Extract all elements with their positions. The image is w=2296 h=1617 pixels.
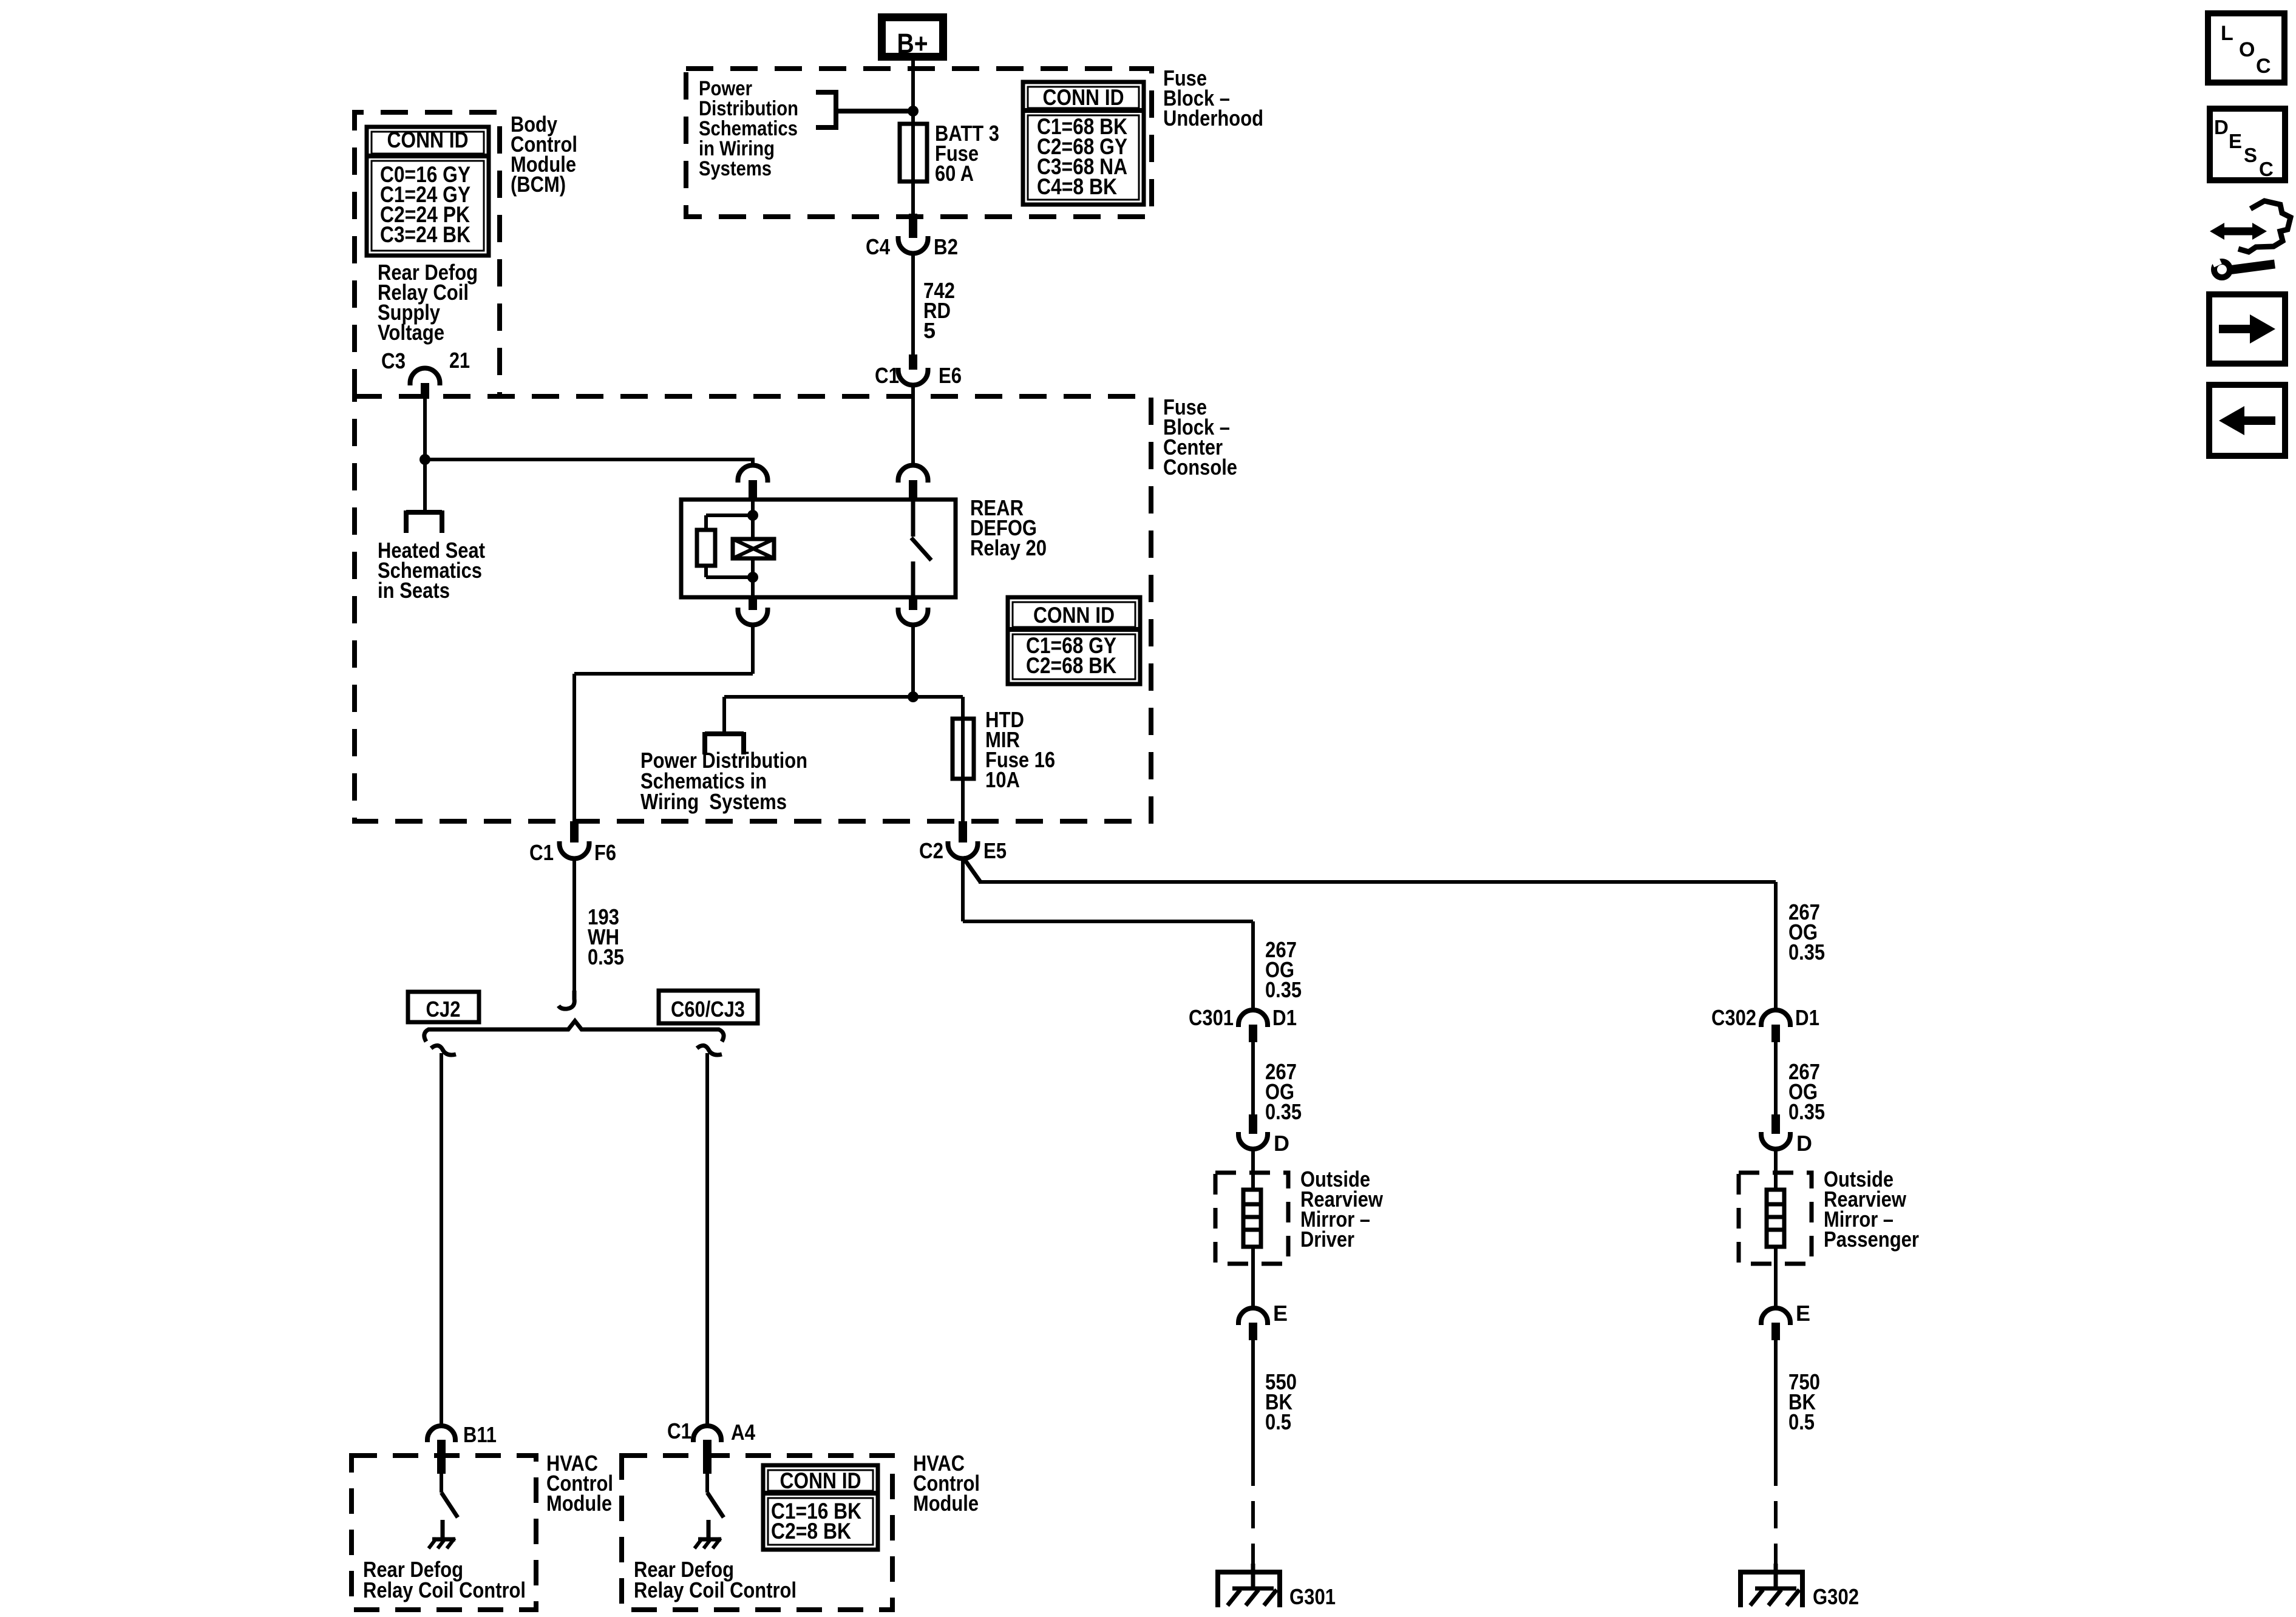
wire relay coil return to F6	[574, 625, 753, 821]
svg-text:C1: C1	[529, 840, 554, 865]
label wire 750 BK 0.5	[1788, 1369, 1820, 1434]
svg-text:CONN ID: CONN ID	[1033, 603, 1115, 628]
svg-text:C3: C3	[381, 348, 406, 373]
wire 742 RD 5	[911, 253, 915, 354]
icon back arrow	[2209, 385, 2285, 456]
connector D (passenger mirror)	[1761, 1114, 1812, 1156]
relay REAR DEFOG Relay 20 box	[681, 500, 956, 597]
label Body Control Module (BCM)	[511, 112, 577, 197]
svg-text:L: L	[2221, 22, 2233, 45]
Outside Rearview Mirror - Driver dashed box	[1215, 1173, 1288, 1264]
label wire 267 OG 0.35 (driver upper)	[1265, 937, 1302, 1002]
svg-text:C2=8 BK: C2=8 BK	[771, 1519, 851, 1544]
svg-text:E5: E5	[983, 838, 1007, 863]
svg-text:CONN ID: CONN ID	[387, 127, 469, 152]
label wire 267 OG 0.35 (passenger upper)	[1788, 900, 1825, 964]
label Rear Defog Relay Coil Supply Voltage	[378, 260, 478, 345]
icon forward arrow	[2209, 294, 2285, 364]
svg-text:Module: Module	[913, 1491, 979, 1516]
off-page pointer bracket: Heated Seat Schematics	[406, 510, 442, 533]
svg-text:D: D	[2214, 116, 2229, 138]
connector C2 / E5	[919, 821, 1007, 863]
relay coil pin bottom connector (85)	[738, 597, 768, 625]
svg-text:C2: C2	[919, 838, 943, 863]
label Power Distribution Schematics in Wiring Systems (top)	[699, 77, 798, 180]
svg-text:E: E	[2229, 130, 2242, 152]
svg-text:0.35: 0.35	[1788, 940, 1825, 964]
svg-text:Relay Coil Control: Relay Coil Control	[634, 1578, 796, 1602]
connector B11 (HVAC left)	[427, 1422, 497, 1474]
label HTD MIR Fuse 16 10A	[985, 707, 1055, 792]
switch Rear Defog Relay Coil Control (right)	[707, 1474, 724, 1538]
svg-text:E: E	[1273, 1301, 1288, 1326]
node junction BCM coil supply	[419, 454, 430, 465]
label Outside Rearview Mirror - Passenger	[1824, 1167, 1919, 1252]
wire C302 to D (passenger)	[1774, 1042, 1778, 1114]
label wire 193 WH 0.35	[588, 904, 624, 969]
CONN ID table (Fuse Block Center Console)	[1008, 597, 1140, 684]
svg-text:C301: C301	[1189, 1005, 1234, 1030]
wire E5 to driver mirror (267 OG)	[963, 857, 1253, 1010]
svg-text:G302: G302	[1813, 1584, 1859, 1609]
svg-text:CJ2: CJ2	[426, 997, 461, 1022]
svg-text:10A: 10A	[985, 767, 1020, 792]
wire junction to relay coil (horizontal)	[425, 458, 753, 466]
label wire 550 BK 0.5	[1265, 1369, 1297, 1434]
label Rear Defog Relay Coil Control (left)	[363, 1557, 526, 1602]
CONN ID table (BCM)	[367, 127, 489, 256]
svg-text:G301: G301	[1289, 1584, 1336, 1609]
wire BCM pin 21 down to junction	[423, 399, 427, 459]
connector C1 / F6	[529, 821, 616, 865]
label Fuse Block - Underhood	[1163, 66, 1263, 131]
label Fuse Block - Center Console	[1163, 395, 1237, 480]
CONN ID table (HVAC right)	[763, 1465, 878, 1550]
wire break hook below bus (C60/CJ3 leg)	[697, 1045, 722, 1424]
connector C302 / D1	[1711, 1005, 1819, 1042]
svg-text:A4: A4	[731, 1420, 755, 1445]
HVAC Control Module dashed box (left)	[352, 1456, 536, 1610]
connector E (passenger)	[1761, 1301, 1810, 1340]
connector C1 / E6	[875, 354, 962, 388]
relay switch pin bottom connector (87)	[898, 597, 928, 625]
switch Rear Defog Relay Coil Control (left)	[441, 1474, 458, 1538]
svg-text:C1: C1	[875, 363, 899, 388]
wire C301 to D (driver)	[1251, 1042, 1255, 1114]
heater element (passenger mirror)	[1767, 1149, 1784, 1308]
svg-text:C1: C1	[667, 1419, 691, 1443]
label wire 267 OG 0.35 (passenger lower)	[1788, 1059, 1825, 1124]
relay coil symbol (box with X)	[733, 539, 774, 558]
label Power Distribution Schematics in Wiring Systems (console)	[640, 748, 807, 814]
Fuse Block - Center Console dashed box	[355, 396, 1151, 821]
svg-text:Voltage: Voltage	[378, 320, 444, 345]
svg-text:E: E	[1796, 1301, 1810, 1326]
relay switch (open)	[911, 500, 931, 597]
label REAR DEFOG Relay 20	[970, 495, 1047, 560]
fuse BATT 3 Fuse 60 A	[900, 124, 927, 181]
wire B+ down to junction	[911, 61, 915, 112]
node junction at B+ feed	[908, 106, 919, 117]
label box C60/CJ3	[659, 991, 758, 1023]
off-page pointer bracket: Power Distribution Schematics in Wiring Systems	[816, 90, 913, 130]
relay coil circuit	[706, 500, 758, 597]
connector C301 / D1	[1189, 1005, 1297, 1042]
wire junction bus to HTD MIR fuse	[724, 697, 963, 734]
svg-text:0.35: 0.35	[588, 944, 624, 969]
Body Control Module dashed box	[355, 112, 500, 396]
label HVAC Control Module (left)	[546, 1451, 613, 1516]
fuse HTD MIR Fuse 16 10A	[953, 697, 974, 821]
power feed B+ terminal	[882, 18, 943, 59]
wire 750 BK 0.5 (passenger ground wire)	[1774, 1340, 1778, 1571]
wire 193 WH 0.35 to splice	[572, 858, 576, 1003]
svg-text:C4: C4	[866, 234, 890, 259]
connector C1 / A4 (HVAC right)	[667, 1419, 755, 1474]
svg-text:Console: Console	[1163, 455, 1237, 480]
Outside Rearview Mirror - Passenger dashed box	[1739, 1173, 1812, 1264]
svg-text:0.5: 0.5	[1788, 1409, 1815, 1434]
label Heated Seat Schematics in Seats	[378, 538, 485, 603]
svg-text:Passenger: Passenger	[1824, 1227, 1919, 1252]
wire break hook below bus (CJ2 leg)	[431, 1045, 456, 1424]
svg-text:B+: B+	[897, 28, 928, 59]
svg-text:Systems: Systems	[699, 157, 772, 180]
HVAC Control Module dashed box (right)	[622, 1456, 892, 1610]
connector E (driver)	[1238, 1301, 1288, 1340]
svg-text:CONN ID: CONN ID	[780, 1468, 861, 1493]
svg-text:in Seats: in Seats	[378, 578, 450, 603]
ground G301	[1215, 1564, 1336, 1609]
label Outside Rearview Mirror - Driver	[1300, 1167, 1384, 1252]
relay coil pin top connector (86)	[738, 466, 768, 500]
svg-text:Wiring Systems: Wiring Systems	[640, 789, 787, 814]
relay switch pin top connector (30)	[898, 466, 928, 500]
off-page pointer bracket: Power Distribution (console)	[705, 732, 744, 754]
wire E5 to passenger mirror (267 OG)	[963, 857, 1776, 1010]
connector C4 / B2	[866, 214, 958, 259]
svg-text:Driver: Driver	[1300, 1227, 1354, 1252]
svg-text:Module: Module	[546, 1491, 612, 1516]
svg-text:(BCM): (BCM)	[511, 172, 566, 197]
icon LOC	[2208, 13, 2284, 83]
splice bus CJ2 / C60-CJ3	[424, 1021, 724, 1042]
wire E6 into center console fuse block	[911, 385, 915, 465]
wire junction down to heated seat bracket	[423, 459, 427, 512]
wire break hook above splice bus	[559, 991, 574, 1009]
svg-text:C: C	[2259, 158, 2274, 180]
svg-text:D1: D1	[1272, 1005, 1297, 1030]
Fuse Block - Underhood dashed box	[686, 69, 1152, 217]
connector C3 / 21 (BCM)	[381, 348, 470, 399]
svg-text:60 A: 60 A	[935, 161, 974, 186]
svg-text:0.5: 0.5	[1265, 1409, 1291, 1434]
ground G302	[1738, 1564, 1859, 1609]
svg-text:0.35: 0.35	[1265, 1099, 1302, 1124]
label BATT 3 Fuse 60 A	[935, 121, 999, 186]
svg-text:Relay 20: Relay 20	[970, 535, 1047, 560]
svg-text:CONN ID: CONN ID	[1043, 85, 1124, 110]
label Rear Defog Relay Coil Control (right)	[634, 1557, 796, 1602]
label wire 267 OG 0.35 (driver lower)	[1265, 1059, 1302, 1124]
svg-text:E6: E6	[939, 363, 962, 388]
svg-text:C60/CJ3: C60/CJ3	[671, 997, 745, 1022]
wire 550 BK 0.5 (driver ground wire)	[1251, 1340, 1255, 1571]
svg-text:C4=8 BK: C4=8 BK	[1037, 174, 1117, 199]
wire junction to fuse	[911, 111, 915, 214]
heater element (driver mirror)	[1243, 1149, 1261, 1308]
label HVAC Control Module (right)	[913, 1451, 980, 1516]
node junction switched feed	[908, 691, 919, 702]
connector D (driver mirror)	[1238, 1114, 1289, 1156]
icon DESC	[2210, 109, 2285, 180]
icon schematic-navigation (arrows + wrench)	[2210, 201, 2291, 277]
svg-text:C2=68 BK: C2=68 BK	[1026, 653, 1116, 678]
svg-text:D1: D1	[1795, 1005, 1819, 1030]
ground symbol (right HVAC)	[695, 1538, 721, 1548]
svg-text:5: 5	[923, 318, 936, 343]
svg-text:C: C	[2256, 55, 2271, 78]
svg-text:S: S	[2244, 144, 2257, 166]
svg-text:C3=24 BK: C3=24 BK	[380, 222, 470, 247]
svg-text:C302: C302	[1711, 1005, 1756, 1030]
label box CJ2	[408, 992, 479, 1022]
CONN ID table (Fuse Block Underhood)	[1023, 82, 1144, 205]
svg-text:0.35: 0.35	[1788, 1099, 1825, 1124]
label wire 742 RD 5	[923, 278, 955, 343]
svg-text:Relay Coil Control: Relay Coil Control	[363, 1578, 526, 1602]
svg-text:B11: B11	[463, 1422, 497, 1447]
svg-text:Underhood: Underhood	[1163, 106, 1263, 131]
svg-text:D: D	[1274, 1131, 1289, 1156]
svg-text:O: O	[2239, 38, 2255, 61]
relay coil parallel resistor	[697, 530, 715, 566]
svg-text:B2: B2	[934, 234, 958, 259]
ground symbol (left HVAC)	[429, 1538, 455, 1548]
svg-text:D: D	[1796, 1131, 1812, 1156]
wire relay switch output to junction	[911, 625, 915, 697]
svg-text:21: 21	[449, 348, 470, 373]
svg-text:0.35: 0.35	[1265, 977, 1302, 1002]
svg-text:F6: F6	[594, 840, 616, 865]
